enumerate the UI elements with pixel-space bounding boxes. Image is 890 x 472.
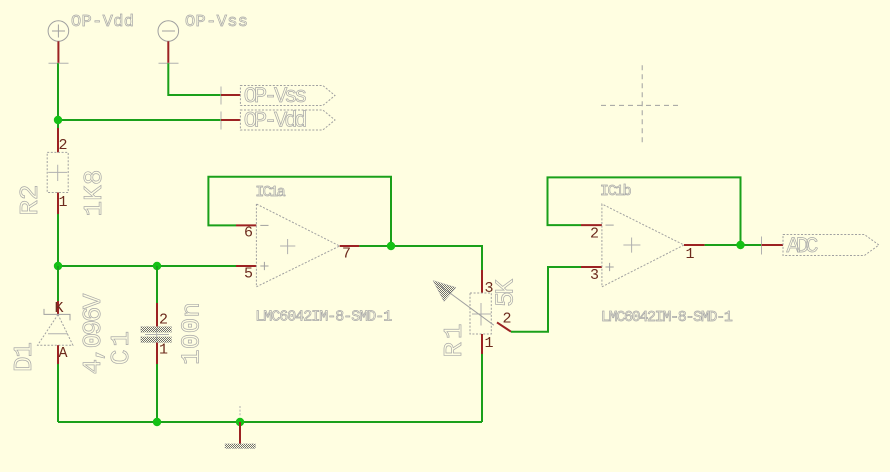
- capacitor C1 pin 2 (top stub): [156, 303, 158, 327]
- op-amp IC1a triangle: [256, 204, 339, 287]
- pin of OP-Vss flag: [221, 94, 240, 96]
- svg-text:5K: 5K: [491, 279, 521, 307]
- potentiometer R1 wiper arrowhead: [433, 281, 456, 302]
- svg-text:A: A: [59, 345, 68, 362]
- svg-text:1: 1: [686, 246, 695, 263]
- resistor R2 pin 1 (bottom stub): [57, 193, 59, 215]
- svg-text:2: 2: [159, 312, 168, 329]
- svg-text:1: 1: [485, 335, 494, 352]
- svg-text:R2: R2: [15, 185, 45, 216]
- op-amp IC1b minus sign: [606, 224, 614, 226]
- wire R1 wiper to IC1b pin 3: [511, 267, 581, 332]
- pin of ADC flag: [762, 244, 784, 246]
- svg-text:7: 7: [342, 246, 351, 263]
- wire OP-Vdd net vertical (symbol down to junction): [57, 63, 59, 130]
- wire bottom rail: [58, 421, 482, 423]
- svg-text:OP-Vdd: OP-Vdd: [244, 109, 308, 134]
- op-amp IC1a pin 7 stub (output): [340, 245, 360, 247]
- svg-text:4,096V: 4,096V: [78, 293, 108, 374]
- wire D1 branch (node down): [57, 266, 59, 301]
- junction IC1a output: [387, 242, 395, 250]
- net flag OP-Vss (outline): [240, 86, 335, 106]
- svg-text:D1: D1: [9, 342, 39, 372]
- op-amp IC1b pin 1 stub (output): [684, 244, 705, 246]
- op-amp IC1a pin 6 stub (- input): [236, 224, 256, 226]
- diode D1 anode triangle: [38, 315, 73, 346]
- op-amp IC1b origin cross: [623, 238, 640, 253]
- pin tick OP-Vss: [159, 62, 179, 64]
- net flag OP-Vdd (outline): [240, 110, 335, 130]
- capacitor C1 bottom plate: [141, 337, 172, 343]
- potentiometer R1 body: [470, 293, 491, 334]
- wire IC1b output to ADC flag: [705, 244, 762, 246]
- potentiometer R1 pin 2 stub (wiper): [497, 322, 511, 331]
- wire C1 branch (node down): [156, 266, 158, 303]
- pin tick of OP-Vdd flag: [220, 112, 222, 130]
- capacitor C1 origin cross: [145, 328, 169, 341]
- power symbol OP-Vss (- circle): [158, 21, 179, 42]
- pin of OP-Vss symbol: [167, 41, 169, 63]
- sheet origin dashed cross: [601, 65, 682, 145]
- pin tick OP-Vdd: [49, 62, 69, 64]
- wire R2 to mid node: [57, 214, 59, 266]
- wire R1 pin1 to bottom rail: [481, 354, 483, 422]
- capacitor C1 pin 1 (bottom stub): [156, 343, 158, 365]
- svg-text:1: 1: [59, 194, 68, 211]
- svg-text:100n: 100n: [177, 302, 207, 365]
- pin tick of GND: [239, 406, 241, 416]
- svg-text:IC1a: IC1a: [255, 184, 285, 201]
- svg-text:6: 6: [244, 225, 253, 242]
- wire mid rail (node to IC1a pin 5): [58, 265, 236, 267]
- potentiometer R1 origin cross: [472, 303, 491, 326]
- svg-text:ADC: ADC: [787, 234, 819, 259]
- svg-text:LMC6042IM-8-SMD-1: LMC6042IM-8-SMD-1: [255, 309, 392, 326]
- ground GND pin stub: [239, 422, 241, 444]
- wire D1 to bottom rail: [57, 364, 59, 422]
- svg-text:OP-Vdd: OP-Vdd: [71, 13, 134, 32]
- svg-text:1K8: 1K8: [79, 170, 109, 217]
- pin of OP-Vdd flag: [221, 119, 240, 121]
- power symbol OP-Vdd (+ circle): [48, 21, 69, 42]
- svg-text:2: 2: [503, 311, 512, 328]
- ground GND bar: [225, 444, 256, 449]
- pin tick of ADC flag: [761, 237, 763, 255]
- op-amp IC1b plus sign: [606, 263, 614, 271]
- svg-text:OP-Vss: OP-Vss: [244, 84, 308, 109]
- svg-text:5: 5: [244, 266, 253, 283]
- svg-text:IC1b: IC1b: [600, 183, 632, 200]
- wire IC1a output to R1: [359, 246, 482, 270]
- op-amp IC1a minus sign: [260, 224, 268, 226]
- op-amp IC1b pin 2 stub (- input): [581, 224, 602, 226]
- svg-text:OP-Vss: OP-Vss: [185, 13, 248, 32]
- op-amp IC1a pin 5 stub (+ input): [236, 265, 256, 267]
- svg-text:2: 2: [590, 226, 599, 243]
- svg-text:LMC6042IM-8-SMD-1: LMC6042IM-8-SMD-1: [601, 309, 733, 326]
- junction IC1b output: [736, 241, 744, 249]
- svg-text:2: 2: [59, 137, 68, 154]
- op-amp IC1b triangle: [602, 204, 684, 287]
- wire OP-Vdd net horizontal (junction right to flag): [58, 119, 221, 121]
- junction bottom rail at C1: [153, 418, 161, 426]
- resistor R2 pin 2 (top stub): [57, 128, 59, 152]
- potentiometer R1 wiper arrow line: [437, 284, 494, 326]
- pin tick of OP-Vss flag: [220, 87, 222, 105]
- svg-text:1: 1: [159, 342, 168, 359]
- potentiometer R1 pin 1 stub (bottom): [481, 334, 483, 354]
- wire IC1b feedback (output to pin 2): [548, 177, 741, 245]
- junction OP-Vdd net: [54, 116, 62, 124]
- wire C1 to bottom rail: [156, 364, 158, 422]
- diode D1 pin K (top stub): [57, 301, 59, 315]
- svg-text:3: 3: [590, 267, 599, 284]
- net flag ADC (outline): [783, 235, 879, 256]
- resistor R2 origin cross: [48, 165, 67, 181]
- op-amp IC1b pin 3 stub (+ input): [581, 266, 602, 268]
- junction mid node at C1: [153, 262, 161, 270]
- potentiometer R1 pin 3 stub (top): [481, 270, 483, 293]
- wire IC1a feedback (output to pin 6): [208, 177, 391, 246]
- resistor R2 body: [47, 152, 68, 192]
- junction bottom rail at GND: [236, 418, 244, 426]
- pin of OP-Vdd symbol: [57, 41, 59, 63]
- diode D1 zener cathode bar: [44, 309, 70, 321]
- wire OP-Vss net (down and right to flag): [168, 63, 221, 95]
- op-amp IC1a origin cross: [280, 239, 295, 254]
- diode D1 origin cross: [48, 333, 68, 335]
- diode D1 pin A (bottom stub): [57, 345, 59, 364]
- op-amp IC1a plus sign: [260, 262, 268, 270]
- junction mid node at D1: [54, 262, 62, 270]
- capacitor C1 top plate: [141, 327, 172, 333]
